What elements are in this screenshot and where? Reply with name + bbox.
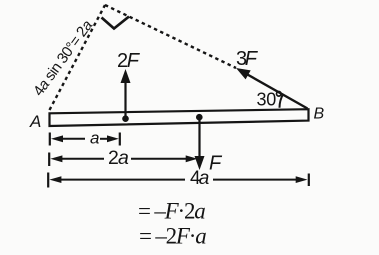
svg-text:2F: 2F [117, 50, 141, 72]
svg-text:2a: 2a [108, 147, 129, 169]
svg-text:30: 30 [257, 90, 277, 110]
svg-text:a: a [90, 129, 99, 148]
svg-text:A: A [29, 112, 41, 131]
svg-text:F: F [209, 152, 223, 174]
svg-text:B: B [314, 106, 325, 123]
svg-text:3F: 3F [236, 48, 259, 70]
svg-text:= –F·2a: = –F·2a [138, 198, 205, 223]
svg-text:= –2F·a: = –2F·a [139, 224, 206, 249]
svg-text:4a sin 30°= 2a: 4a sin 30°= 2a [30, 17, 96, 99]
svg-text:4a: 4a [190, 168, 209, 189]
